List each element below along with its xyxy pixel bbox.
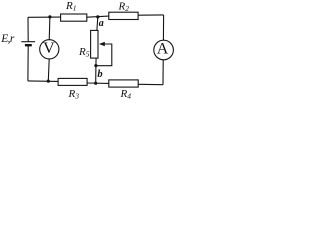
wire between R4 and R3 <box>87 82 109 84</box>
resistor R4 <box>109 80 138 101</box>
node b <box>94 64 102 80</box>
wire bottom-right segment <box>138 83 163 85</box>
junction voltmeter bottom <box>47 80 50 83</box>
wire right side upper <box>162 15 164 42</box>
wire node b to bottom rail <box>95 66 97 84</box>
resistor R3 <box>58 78 87 100</box>
wire voltmeter upper stem <box>48 17 51 41</box>
ammeter A <box>154 40 174 60</box>
svg-text:A: A <box>157 41 169 58</box>
resistor R1 <box>61 0 87 21</box>
wire R2 to top-right corner <box>138 14 164 16</box>
battery E,r <box>0 33 35 45</box>
svg-text:V: V <box>43 40 55 57</box>
svg-text:E,r: E,r <box>0 33 15 45</box>
svg-text:a: a <box>99 18 104 29</box>
resistor R2 <box>109 1 138 20</box>
rheostat R5 <box>78 30 98 58</box>
wire bottom-left segment <box>28 80 58 83</box>
wire top-left segment <box>28 16 61 18</box>
wire right side lower <box>162 60 164 85</box>
wire between R1 and R2 <box>87 16 109 17</box>
wire left side lower <box>27 46 29 81</box>
voltmeter V <box>40 40 59 59</box>
junction voltmeter top <box>48 15 51 18</box>
node a <box>96 15 103 29</box>
wire R5 to node b <box>95 58 97 66</box>
wire node a to R5 <box>96 17 99 31</box>
wire voltmeter lower stem <box>47 59 50 81</box>
junction below b <box>94 82 97 85</box>
svg-text:b: b <box>97 69 102 80</box>
wiper arrow of R5 <box>96 42 112 66</box>
wire left side upper <box>27 17 29 41</box>
